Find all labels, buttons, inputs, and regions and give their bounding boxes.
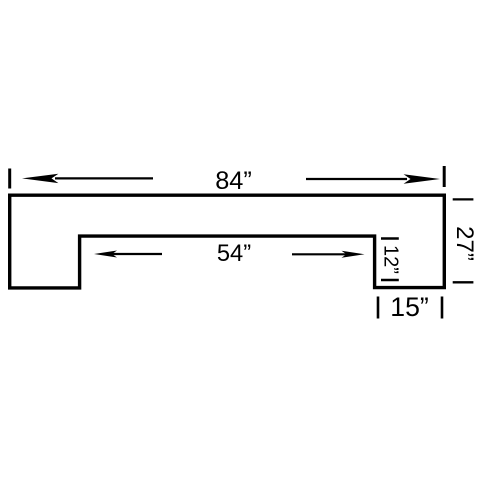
dim 15 right tick xyxy=(441,297,444,319)
dim 84 right tick xyxy=(443,166,446,187)
dim 84 left tick xyxy=(8,169,11,189)
dim 27 bottom tick xyxy=(453,281,474,283)
dim 12 top tick xyxy=(381,237,399,240)
svg-text:15”: 15” xyxy=(390,292,428,322)
dim 54 left arrow xyxy=(94,251,162,258)
dim 12 bottom tick xyxy=(381,279,399,282)
svg-text:54”: 54” xyxy=(217,241,251,267)
dim 15 left tick xyxy=(377,297,380,319)
svg-text:84”: 84” xyxy=(215,167,252,195)
svg-text:27”: 27” xyxy=(451,226,478,261)
svg-text:12”: 12” xyxy=(380,245,402,274)
dim 27 top tick xyxy=(453,198,474,200)
dim 84 right arrow xyxy=(306,174,440,183)
countertop outline xyxy=(10,195,445,288)
dim 54 right arrow xyxy=(292,251,365,258)
dim 84 left arrow xyxy=(22,174,153,183)
